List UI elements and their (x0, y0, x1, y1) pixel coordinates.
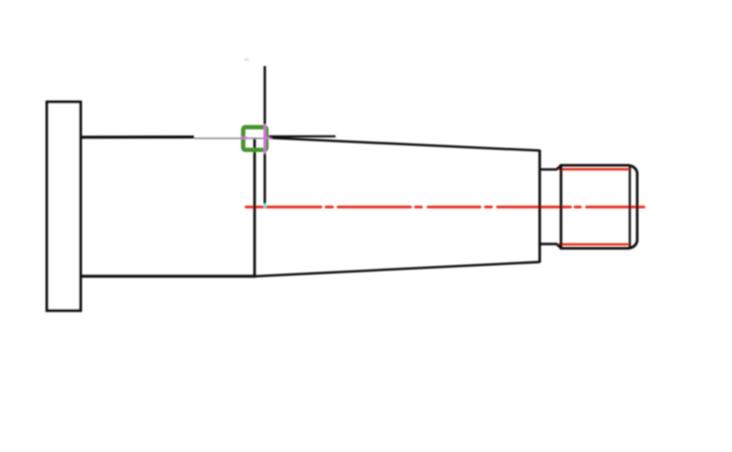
flange outline (47, 102, 81, 311)
cylinder-taper junction vertical edge (253, 138, 256, 277)
snap marker green square (243, 127, 266, 150)
gray construction line (194, 137, 272, 139)
faint smudge artifact (244, 58, 249, 61)
undercut groove top line (540, 166, 561, 170)
thread root line top (red) (559, 168, 629, 171)
thread root line bottom (red) (559, 243, 629, 246)
crosshair magenta vertical segment (264, 124, 266, 153)
thread chamfer line (end face minor diameter) (629, 166, 631, 248)
thread section outline with chamfered end (561, 165, 637, 248)
residual top edge segment (264, 135, 336, 137)
taper end vertical edge (538, 150, 541, 263)
taper bottom edge (255, 262, 540, 276)
vertical rubber-band line above snap point (264, 66, 266, 204)
centerline (red dash-dot axis) (246, 206, 644, 209)
crosshair magenta left tick (241, 137, 248, 139)
cylinder top edge (80, 136, 194, 139)
cylinder bottom edge (80, 275, 256, 278)
taper top edge (265, 138, 540, 151)
cyan intersection tick on centerline (264, 204, 266, 209)
undercut groove bottom line (540, 244, 561, 248)
crosshair magenta right tick (264, 137, 270, 139)
